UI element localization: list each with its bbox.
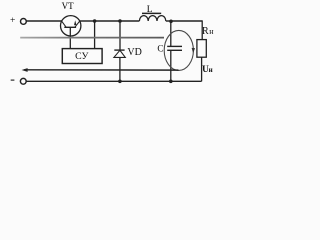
control unit СУ label: [75, 51, 88, 62]
control unit СУ box: [62, 49, 102, 64]
junction dot capacitor-bottom rail: [169, 80, 173, 84]
wire: transistor base down to control unit: [69, 27, 71, 48]
transistor VT circle: [60, 16, 80, 36]
svg-text:+: +: [10, 16, 15, 26]
resistor Rн box: [197, 40, 206, 58]
junction dot diode-bottom rail: [118, 80, 122, 84]
capacitor C bottom plate: [167, 49, 182, 51]
wire: node A down to control unit: [94, 21, 96, 49]
transistor VT label: [62, 1, 74, 11]
inductor L coil (3 arcs): [139, 16, 165, 21]
wire: node C down to capacitor top plate: [170, 21, 172, 46]
current path gray line (upper annotation wire): [20, 37, 164, 39]
resistor Rн label: [202, 26, 214, 37]
diode VD triangle: [114, 50, 125, 57]
wire: inductor to node C: [166, 20, 171, 22]
wire: right side down from corner to resistor: [201, 20, 203, 39]
wire: top rail from + terminal to transistor: [26, 20, 61, 22]
current loop arrowhead (down, on right arc): [192, 48, 195, 53]
wire: top rail from node C to top-right corner: [171, 20, 202, 22]
positive input terminal circle: [21, 19, 27, 25]
svg-text:н: н: [209, 27, 214, 36]
wire: node B down to diode cathode: [119, 21, 121, 50]
minus sign of input: [11, 79, 15, 81]
plus sign of input: [10, 16, 15, 26]
inductor L label: [147, 5, 153, 15]
svg-text:VT: VT: [62, 1, 74, 11]
transistor VT emitter slant with arrow (right): [74, 20, 80, 27]
capacitor C top plate: [167, 45, 182, 47]
node C junction dot (output node): [169, 20, 173, 24]
wire: capacitor bottom plate down to bottom rail: [170, 50, 172, 81]
current loop ellipse annotation: [164, 30, 193, 70]
capacitor C label: [157, 44, 163, 54]
inductor L overbar: [142, 12, 161, 14]
current return arrow line (lower annotation) with left arrowhead: [22, 68, 179, 72]
wire: resistor bottom down to bottom-right corner: [201, 57, 203, 81]
diode VD cathode bar: [114, 49, 124, 51]
svg-text:н: н: [209, 66, 213, 74]
node A junction dot (switch node to control unit): [93, 19, 97, 23]
svg-text:C: C: [157, 44, 163, 54]
svg-text:VD: VD: [127, 47, 141, 58]
transistor VT base bar: [64, 26, 76, 28]
wire: diode anode down to bottom rail: [119, 57, 121, 81]
svg-text:R: R: [202, 26, 209, 37]
wire: top rail from node B to inductor: [120, 20, 139, 22]
wire: top rail from node A to node B: [95, 20, 120, 22]
negative input terminal circle: [20, 78, 26, 84]
node B junction dot (diode node): [118, 19, 122, 23]
transistor VT collector slant (left): [62, 21, 66, 27]
svg-text:СУ: СУ: [75, 51, 88, 62]
bottom rail wire: [26, 80, 201, 82]
wire: top rail from transistor to node A: [80, 20, 95, 22]
output voltage label Uн: [202, 65, 213, 75]
diode VD label: [127, 47, 141, 58]
